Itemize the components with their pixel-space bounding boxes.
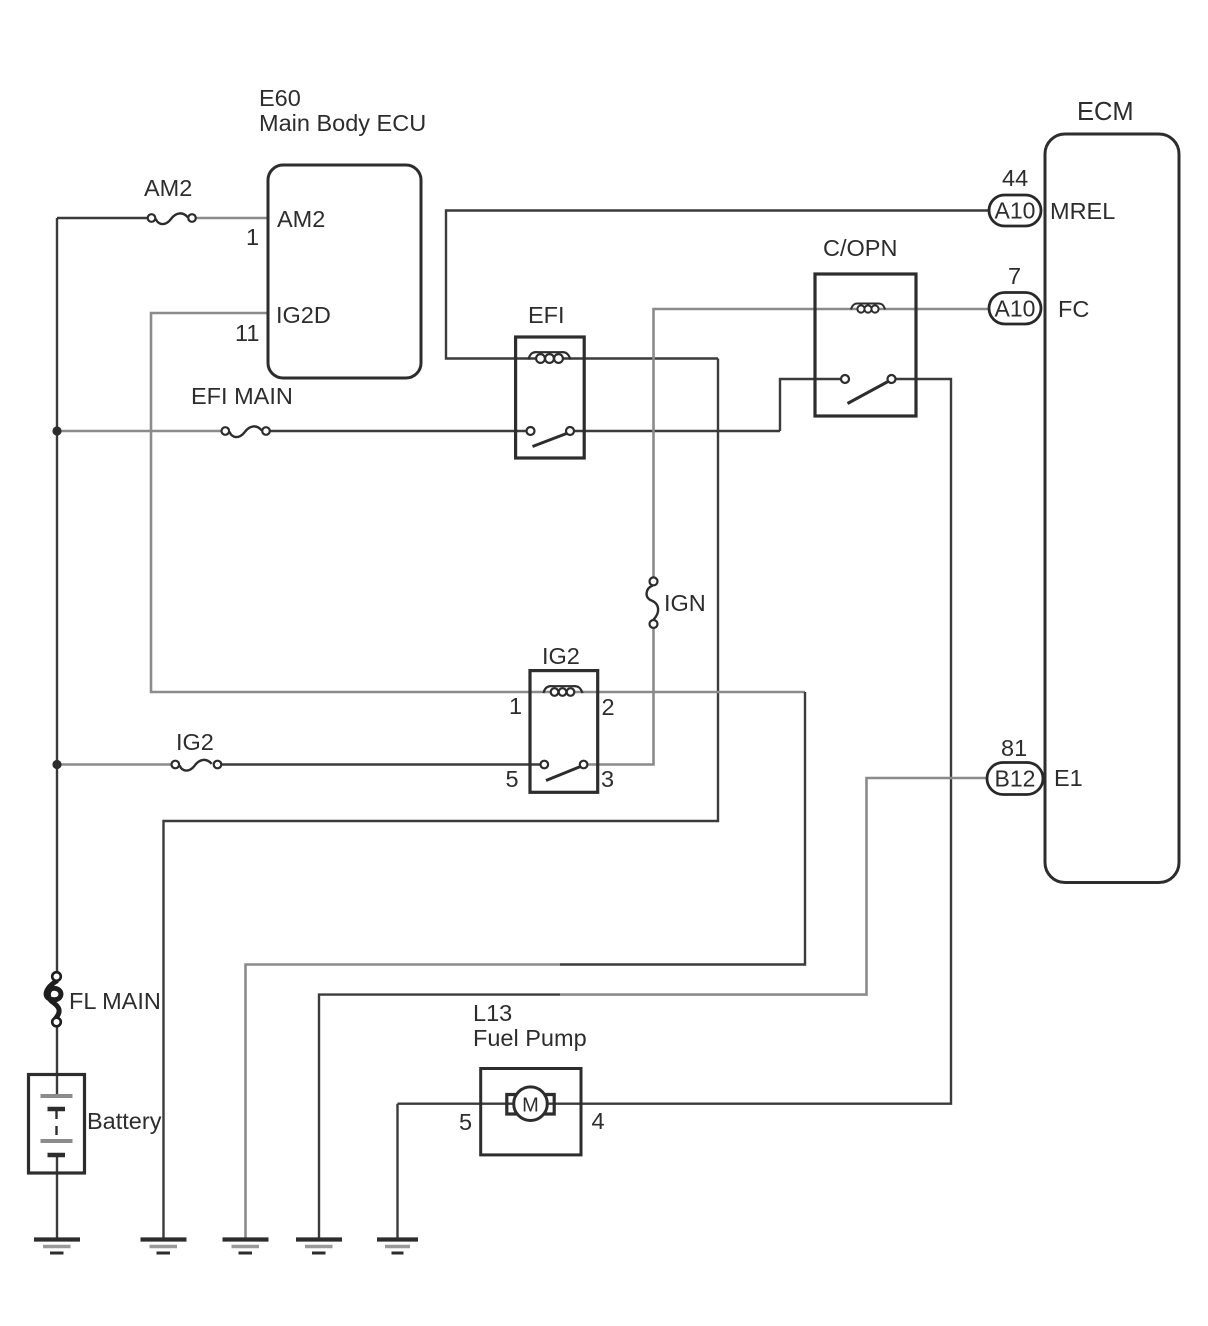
svg-text:A10: A10 — [995, 296, 1036, 322]
connector B12 E1 — [987, 763, 1043, 795]
wire: ECM E1 to ground 4 — [560, 778, 989, 995]
E60 Main Body ECU box — [268, 165, 421, 378]
relay IG2 switch — [541, 761, 588, 781]
svg-text:2: 2 — [602, 694, 615, 720]
junction node: EFI MAIN tap — [52, 426, 61, 435]
svg-text:44: 44 — [1002, 165, 1028, 191]
svg-text:5: 5 — [459, 1109, 472, 1135]
wire: IG2D from E60 to IG2 relay coil (gray) — [151, 313, 805, 692]
svg-text:5: 5 — [506, 766, 519, 792]
wire: EFI MAIN row — [57, 430, 221, 433]
junction node: IG2 tap — [52, 760, 61, 769]
wire: IG2 coil return to ground 3 — [560, 692, 805, 965]
svg-text:EFI: EFI — [528, 302, 565, 328]
svg-text:M: M — [522, 1095, 539, 1117]
fuse EFI MAIN — [222, 426, 270, 437]
svg-text:AM2: AM2 — [277, 206, 325, 232]
svg-text:1: 1 — [246, 224, 259, 250]
svg-text:L13: L13 — [473, 1000, 512, 1026]
svg-text:FL MAIN: FL MAIN — [69, 988, 161, 1014]
wire: IGN riser / C-OPN coil / FC (gray) — [588, 309, 989, 765]
svg-text:IGN: IGN — [664, 590, 706, 616]
connector A10 MREL — [989, 195, 1041, 226]
wire: C/OPN switch to fuel pump pin 4 — [398, 379, 952, 1104]
relay EFI switch — [527, 427, 575, 447]
svg-text:B12: B12 — [995, 766, 1036, 792]
ground 4 — [296, 1240, 342, 1254]
svg-text:Main Body ECU: Main Body ECU — [259, 110, 426, 136]
svg-text:MREL: MREL — [1050, 198, 1115, 224]
svg-text:E60: E60 — [259, 85, 301, 111]
battery — [29, 1075, 85, 1174]
svg-text:IG2: IG2 — [176, 729, 214, 755]
fuel pump L13 box — [481, 1069, 581, 1155]
wire: fuel pump pin 5 to ground — [396, 1104, 398, 1241]
wire: EFI coil return to ground 2 — [164, 359, 719, 1242]
svg-text:7: 7 — [1008, 263, 1021, 289]
svg-text:EFI MAIN: EFI MAIN — [191, 383, 293, 409]
relay C/OPN box — [815, 274, 916, 416]
fuse AM2 — [148, 213, 196, 224]
wire: EFI switch to C/OPN switch — [780, 379, 841, 431]
svg-text:1: 1 — [509, 693, 522, 719]
relay EFI coil — [529, 352, 571, 363]
relay C/OPN coil — [851, 303, 885, 312]
relay IG2 box — [530, 671, 598, 793]
svg-text:AM2: AM2 — [144, 175, 192, 201]
ECM box — [1045, 134, 1179, 883]
fuse IGN (vertical) — [647, 577, 659, 628]
ground 5 (fuel pump) — [377, 1240, 418, 1254]
wire: MREL A10 to EFI coil — [446, 211, 989, 359]
svg-text:FC: FC — [1058, 296, 1089, 322]
svg-text:IG2: IG2 — [542, 643, 580, 669]
wire: AM2 fuse to E60 (gray) — [196, 217, 268, 220]
wire: battery feed left vertical — [57, 218, 147, 1241]
svg-text:11: 11 — [235, 320, 259, 346]
relay EFI box — [516, 337, 585, 458]
motor M of fuel pump — [507, 1087, 554, 1121]
svg-text:4: 4 — [592, 1108, 605, 1134]
svg-text:Battery: Battery — [87, 1108, 162, 1134]
svg-text:C/OPN: C/OPN — [823, 235, 897, 261]
fuse IG2 — [172, 760, 222, 771]
ground 1 (battery) — [34, 1240, 80, 1254]
svg-text:81: 81 — [1001, 735, 1027, 761]
connector A10 FC — [989, 293, 1041, 325]
svg-text:3: 3 — [601, 766, 614, 792]
relay C/OPN switch — [841, 375, 896, 404]
ground 2 — [141, 1240, 187, 1254]
svg-text:E1: E1 — [1054, 765, 1083, 791]
ground 3 — [223, 1240, 269, 1254]
svg-text:A10: A10 — [995, 198, 1036, 224]
svg-text:IG2D: IG2D — [276, 302, 331, 328]
wire: IG2 fuse row — [57, 763, 171, 766]
svg-text:Fuel Pump: Fuel Pump — [473, 1025, 587, 1051]
svg-text:ECM: ECM — [1077, 98, 1134, 126]
fusible link FL MAIN — [46, 972, 61, 1026]
relay IG2 coil — [544, 686, 583, 696]
